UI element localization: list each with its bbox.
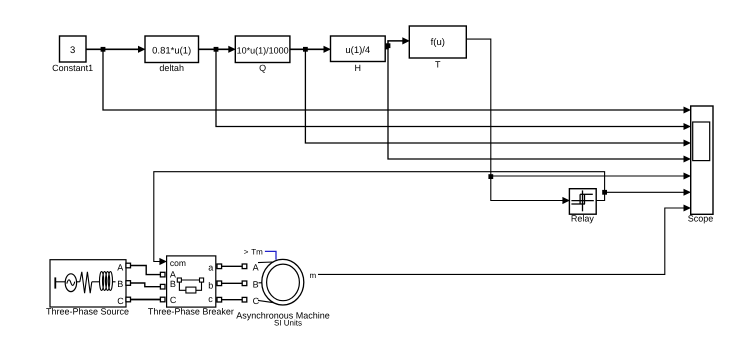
svg-text:deltah: deltah [159,63,184,73]
wire T output to node J5 [466,39,491,176]
svg-text:B: B [170,279,176,289]
svg-text:u(1)/4: u(1)/4 [345,45,370,56]
machine stub B [259,282,263,284]
svg-text:A: A [117,263,123,273]
machine input A square [242,264,247,269]
svg-text:f(u): f(u) [431,37,445,48]
junction node J6 [602,190,607,195]
wire source B to breaker B [131,283,161,287]
block Three-Phase Source [46,260,129,317]
junction node J3 [303,47,308,52]
svg-text:0.81*u(1): 0.81*u(1) [152,46,191,57]
junction node J4 [386,43,391,48]
breaker input A square [160,272,165,277]
machine stub A [258,261,273,264]
svg-text:B: B [117,279,123,289]
svg-text:SI Units: SI Units [274,319,302,328]
block T [409,26,466,70]
svg-text:B: B [253,279,259,289]
source port B square [126,281,131,286]
block Asynchronous Machine [236,259,330,327]
block Relay [569,189,596,224]
block Three-Phase Breaker [148,256,234,317]
svg-text:Relay: Relay [571,214,595,224]
wire node J5 to Relay input [491,176,570,204]
svg-text:Three-Phase Breaker: Three-Phase Breaker [148,307,234,317]
source inductor [92,272,116,291]
svg-text:H: H [355,63,362,73]
svg-text:10*u(1)/1000: 10*u(1)/1000 [237,46,289,56]
svg-text:>: > [244,247,249,256]
wire Q to H [290,46,331,53]
wire machine m output to Scope input 7 [318,205,691,275]
block Constant1 [52,36,93,73]
machine input C square [242,297,247,302]
svg-text:A: A [253,263,259,273]
svg-text:3: 3 [70,45,75,56]
svg-text:a: a [208,262,213,272]
breaker output b square [217,281,222,286]
wire H branch to Scope input 4 [388,46,691,163]
breaker input C square [160,297,165,302]
svg-text:Scope: Scope [688,214,714,224]
breaker input B square [160,284,165,289]
junction node J1 [101,47,106,52]
wire breaker b to machine B [222,282,243,284]
junction node J2 [214,47,219,52]
source port C square [126,297,131,302]
source terminal [55,277,65,288]
svg-text:C: C [170,295,177,305]
wire deltah to Q [199,46,236,53]
wire T branch to Scope input 5 [491,173,691,180]
wire source A to breaker A [131,266,161,275]
source resistor [77,272,92,293]
machine stub C [258,300,274,302]
wire deltah branch to Scope input 2 [216,49,691,130]
junction node J5 [488,174,493,179]
svg-text:com: com [170,258,186,268]
svg-text:m: m [310,271,317,280]
svg-text:C: C [253,296,260,306]
svg-text:Q: Q [259,63,266,73]
breaker output c square [217,297,222,302]
wire Constant1 branch to Scope input 1 [103,49,691,113]
svg-text:Constant1: Constant1 [52,63,93,73]
source port A square [126,263,131,268]
wire Q branch to Scope input 3 [305,49,691,146]
wire Relay control to breaker com input [154,172,605,265]
svg-text:C: C [117,296,124,306]
wire H to T [385,37,410,48]
machine Tm wire [265,251,276,259]
wire source C to breaker C [131,299,161,301]
block deltah [145,36,199,73]
source AC generator circle [65,274,76,292]
svg-text:Three-Phase Source: Three-Phase Source [46,307,129,317]
breaker output a square [217,264,222,269]
block H [331,36,386,73]
svg-text:Tm: Tm [251,247,263,256]
wire breaker c to machine C [222,299,243,301]
svg-text:b: b [208,280,213,290]
block Scope [688,106,714,224]
block Q [235,36,290,73]
svg-text:T: T [435,60,441,70]
wire Constant1 to deltah [86,46,146,53]
machine input B square [242,281,247,286]
wire breaker a to machine A [222,265,243,267]
breaker switch icon [177,278,203,293]
wire Relay output to node J6 [596,192,604,200]
wire Relay output branch to Scope input 6 [605,189,691,196]
svg-text:c: c [208,294,213,304]
